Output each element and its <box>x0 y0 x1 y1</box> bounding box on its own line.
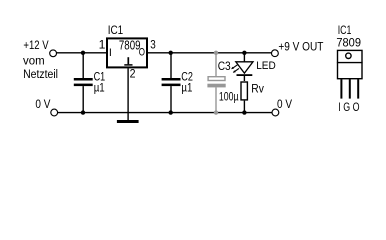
svg-text:0 V: 0 V <box>277 97 293 111</box>
svg-text:3: 3 <box>150 38 156 52</box>
resistor Rv <box>241 82 247 113</box>
svg-text:O: O <box>139 47 145 59</box>
svg-text:+9 V OUT: +9 V OUT <box>278 39 323 53</box>
svg-text:+12 V: +12 V <box>23 38 49 52</box>
svg-text:µ1: µ1 <box>181 80 192 94</box>
capacitor C3 electrolytic grey <box>207 53 225 113</box>
terminal output +9V <box>272 50 279 57</box>
svg-text:Rv: Rv <box>251 82 264 96</box>
svg-text:vom: vom <box>23 54 45 68</box>
op-amp U1 regulator IC1 box <box>107 38 147 68</box>
svg-text:IC1: IC1 <box>108 23 124 37</box>
svg-text:1: 1 <box>99 38 106 52</box>
junction dots C1 <box>81 51 85 55</box>
svg-text:2: 2 <box>130 67 136 81</box>
svg-text:I: I <box>109 47 112 59</box>
svg-text:7809: 7809 <box>336 36 361 50</box>
wire pin2 down <box>127 68 129 112</box>
svg-text:Netzteil: Netzteil <box>23 67 58 81</box>
wire top left <box>57 52 107 54</box>
wire top right <box>148 52 271 54</box>
junction dots C2 <box>169 51 173 55</box>
capacitor C1 <box>74 53 93 113</box>
svg-text:µ1: µ1 <box>94 80 105 94</box>
svg-text:100µ: 100µ <box>219 89 239 103</box>
svg-text:I G O: I G O <box>338 100 359 114</box>
junction dots LED branch <box>242 51 246 55</box>
svg-text:C3: C3 <box>218 59 231 73</box>
wire bottom rail <box>58 112 272 114</box>
svg-text:0 V: 0 V <box>35 97 51 111</box>
svg-text:7809: 7809 <box>119 38 141 53</box>
terminal input +12V <box>50 50 57 57</box>
transistor-style package TO220 IC1 <box>337 50 363 98</box>
terminal bottom right 0V <box>272 109 279 116</box>
svg-text:LED: LED <box>256 60 276 72</box>
ground <box>117 113 139 122</box>
capacitor C2 <box>162 53 181 113</box>
LED D1 <box>231 53 253 81</box>
junction dots C3 grey <box>214 51 218 55</box>
terminal bottom left 0V <box>51 109 58 116</box>
